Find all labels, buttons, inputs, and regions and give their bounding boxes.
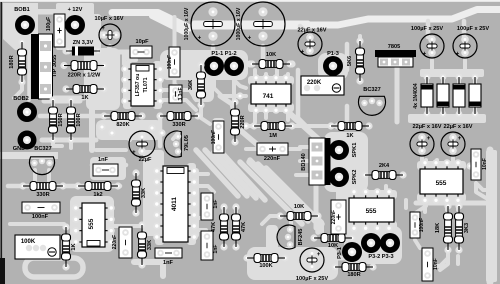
resistor 36K: [197, 61, 204, 68]
svg-text:+: +: [423, 51, 427, 57]
capacitor C 1000uF x16V no.2: [241, 2, 285, 46]
capacitor 220nF mid vertical: [331, 200, 346, 234]
svg-text:180R: 180R: [9, 55, 15, 68]
ground pad GND: [18, 131, 37, 150]
wire band under 10uF: [96, 32, 110, 37]
wire 100uF bottom links: [294, 252, 300, 266]
svg-text:+: +: [301, 49, 305, 55]
wire 220nF-SPK row: [288, 147, 300, 151]
resistor 5K6: [356, 37, 363, 44]
copper pour bottom-centre: [247, 247, 338, 280]
wire 79L05 links: [92, 163, 126, 168]
svg-text:+: +: [427, 136, 431, 142]
copper pour top-left around BOB1: [3, 3, 38, 50]
trimmer P 220K: [304, 85, 311, 92]
resistor 1K bottom-left: [62, 223, 69, 230]
resistor 10K top-right: [248, 60, 255, 67]
svg-text:3,3nF: 3,3nF: [178, 87, 184, 100]
junction pads misc: [242, 122, 249, 129]
svg-text:100K: 100K: [21, 239, 36, 245]
capacitor 1nF left: [93, 164, 118, 176]
wire 7805 down through BC327: [395, 67, 400, 122]
svg-text:220nF: 220nF: [112, 235, 118, 249]
solder pad P1-3: [323, 56, 343, 76]
op-amp IC1 LF357/TL071 DIP-8: [123, 61, 132, 109]
wire diode leads columns: [425, 72, 429, 84]
svg-text:330R: 330R: [36, 192, 49, 198]
wire 10uF bottom stub: [106, 46, 110, 54]
solder pad P3-3: [380, 233, 400, 253]
svg-text:P1-1 P1-2: P1-1 P1-2: [211, 51, 236, 57]
svg-text:GND: GND: [13, 146, 25, 152]
resistor 150R: [49, 96, 56, 103]
wire right edge vertical channel: [486, 150, 497, 282]
svg-text:22µF x 16V: 22µF x 16V: [297, 28, 326, 34]
resistor 100R: [67, 96, 74, 103]
svg-text:+: +: [248, 36, 252, 42]
svg-text:220K: 220K: [307, 80, 322, 86]
svg-text:2K4: 2K4: [379, 163, 390, 169]
svg-text:10nF: 10nF: [482, 158, 488, 170]
svg-text:SPK2: SPK2: [352, 170, 358, 185]
wire 36K down: [201, 108, 210, 124]
svg-text:22µF x 16V: 22µF x 16V: [412, 124, 441, 130]
wire bottom-left resistor row: [8, 184, 120, 189]
wire P1-3 to 220K: [326, 78, 333, 92]
wire band x105-145 y227: [106, 224, 140, 228]
resistor 1K upper-left: [62, 85, 69, 92]
capacitor C 22uF left: [129, 131, 155, 157]
junction pads in band under 820K: [98, 123, 105, 130]
wire 220R-mid top diagonal: [220, 96, 234, 112]
resistor 100K bottom: [243, 254, 250, 261]
svg-text:+: +: [317, 252, 321, 258]
svg-text:1000µF x 16V: 1000µF x 16V: [184, 7, 190, 40]
wire 7805 to diodes: [420, 69, 484, 77]
transistor BD140: [309, 138, 325, 185]
copper pour behind SPK1 SPK2: [324, 132, 368, 192]
resistor 220R x 1/2W: [60, 62, 67, 69]
svg-text:100µF x 25V: 100µF x 25V: [457, 26, 489, 32]
wire misc top right caps: [430, 60, 434, 70]
resistor 1k2: [74, 182, 81, 189]
resistor 33K upper: [132, 169, 139, 176]
timer IC4 555 left DIP-8 vertical: [74, 200, 83, 250]
svg-text:220nF: 220nF: [264, 156, 281, 162]
wire 100nF top stubs: [173, 17, 177, 52]
wire 555-2 surroundings: [352, 190, 356, 196]
wire 18K 3K3 bottoms: [440, 256, 448, 270]
capacitor C 22uF x16V top: [298, 32, 322, 56]
svg-text:ZN 3,3V: ZN 3,3V: [73, 40, 94, 46]
svg-text:741: 741: [263, 93, 274, 100]
svg-text:LF357 ou: LF357 ou: [135, 74, 141, 97]
capacitor 10pF: [130, 46, 152, 58]
wire left resistor column links: [14, 78, 22, 98]
wire 555-3 bottom band: [416, 201, 487, 206]
solder pad SPK1: [329, 140, 349, 160]
svg-text:4x 1N4004: 4x 1N4004: [413, 83, 419, 108]
wire 100nF-mid column: [212, 118, 225, 156]
wire 555 left pour: [70, 196, 114, 252]
capacitor 100nF mid: [213, 121, 224, 153]
wire TIP3055 side strip: [27, 38, 31, 100]
capacitor 100uF radial-rect top-left: [54, 14, 65, 47]
wire 10K bottom row links: [262, 216, 282, 224]
wire 4011 pin stubs right: [196, 172, 208, 176]
svg-text:220R: 220R: [240, 115, 246, 128]
solder pad P3-1: [342, 242, 362, 262]
svg-text:555: 555: [436, 180, 447, 187]
svg-text:BOB1: BOB1: [14, 7, 30, 13]
svg-text:100nF: 100nF: [211, 130, 217, 144]
svg-text:10nF: 10nF: [433, 258, 439, 270]
resistor 820K: [100, 112, 107, 119]
svg-text:100µF x 25V: 100µF x 25V: [296, 276, 328, 282]
wire band above 100K trimmer: [10, 222, 64, 226]
zener diode ZN 3,3V: [65, 48, 72, 55]
wire bottom centre band: [134, 262, 163, 276]
copper pour behind P1-3: [318, 53, 348, 80]
wire 1M-1K row: [246, 124, 336, 128]
svg-text:100nF: 100nF: [32, 214, 49, 220]
svg-text:330R: 330R: [172, 122, 185, 128]
svg-text:+: +: [456, 51, 460, 57]
svg-text:22µF x 16V: 22µF x 16V: [443, 124, 472, 130]
wire 100nF right to 555-2: [404, 200, 408, 208]
svg-text:P1-3: P1-3: [327, 51, 339, 57]
svg-text:100µF: 100µF: [46, 17, 52, 31]
wire 10pF under: [128, 52, 136, 60]
wire centre extra diagonals: [240, 162, 302, 224]
copper pour left-centre resistor ends: [86, 48, 120, 110]
svg-text:22µF: 22µF: [139, 157, 152, 163]
wire loop bottom-left: [25, 258, 83, 277]
capacitor C 22uF x16V mid no.1: [410, 132, 434, 156]
wire left of BF245: [266, 225, 278, 265]
svg-text:1nF: 1nF: [98, 157, 109, 163]
capacitor C 10uF x16V: [99, 24, 121, 46]
capacitor C 1000uF x16V no.1: [191, 2, 235, 46]
svg-text:1K: 1K: [71, 243, 77, 250]
op-amp IC2 741 DIP-8: [248, 76, 294, 85]
copper pour P3 connector area: [344, 226, 402, 264]
svg-text:79L05: 79L05: [184, 135, 190, 151]
svg-text:TL071: TL071: [143, 77, 149, 92]
wire 741 bottoms to 1M 1K row: [253, 108, 257, 122]
resistor 3K3: [455, 202, 462, 209]
wire 47K tops: [222, 208, 226, 214]
svg-text:5K6: 5K6: [347, 56, 353, 66]
resistor 10K mid-bottom lower: [310, 234, 317, 241]
svg-text:BC327: BC327: [363, 87, 380, 93]
timer IC5 555 centre DIP-8: [346, 190, 397, 199]
wire 100uF25V top stubs: [426, 21, 431, 37]
svg-text:1nF: 1nF: [213, 245, 219, 254]
capacitor 3,3nF: [169, 85, 182, 103]
wire 180R to P3: [370, 258, 374, 262]
copper vertical channel left-centre: [84, 14, 101, 100]
svg-text:BD140: BD140: [301, 153, 307, 170]
capacitor 220nF near SPK: [257, 143, 288, 155]
svg-text:10K: 10K: [294, 204, 304, 210]
svg-text:3K3: 3K3: [464, 223, 470, 233]
wire 741 right diagonal to SPK pour: [288, 112, 328, 148]
transistor BF245: [277, 225, 295, 249]
svg-text:10K: 10K: [328, 243, 338, 249]
resistor 1M: [250, 122, 257, 129]
resistor 180R bottom: [331, 263, 338, 270]
board left edge line: [1, 2, 3, 284]
svg-text:+: +: [132, 150, 136, 156]
wire left channel extension down: [89, 100, 95, 150]
wire P1-1 to 36K: [202, 78, 214, 96]
wire BF245 stubs: [289, 214, 293, 226]
capacitor 100nF right vertical: [410, 212, 420, 238]
svg-text:555: 555: [88, 218, 95, 229]
transistor BC327 left: [30, 157, 55, 175]
wire 10nF right edge link: [476, 184, 486, 198]
timer IC6 555 right DIP-8: [417, 161, 466, 170]
resistor 2K4: [361, 171, 368, 178]
svg-text:47K: 47K: [241, 222, 247, 232]
capacitor 1nF bottom: [155, 248, 182, 258]
capacitor C 100uF x25V bottom: [300, 248, 324, 272]
transistor BC327 right: [358, 96, 385, 115]
resistor 10K mid-bottom upper: [276, 212, 283, 219]
svg-text:33K: 33K: [141, 188, 147, 198]
solder pad SPK2: [329, 167, 349, 187]
resistor 180R left edge: [18, 38, 25, 45]
wire under diodes: [408, 114, 486, 123]
svg-text:100nF: 100nF: [419, 218, 425, 232]
svg-text:1nF: 1nF: [163, 260, 174, 266]
resistor 47K right: [232, 203, 239, 210]
solder pad +12V: [65, 15, 85, 35]
solder pad BOB1: [15, 15, 35, 35]
svg-text:P3-2 P3-3: P3-2 P3-3: [368, 254, 393, 260]
svg-text:BC327: BC327: [34, 146, 51, 152]
wire mid horizontal y147 left: [96, 148, 126, 152]
solder pad P1-2: [224, 56, 244, 76]
wire BD140 left stubs: [300, 145, 308, 149]
svg-text:36K: 36K: [188, 80, 194, 90]
svg-text:1M: 1M: [269, 133, 277, 139]
svg-text:TIP 3055: TIP 3055: [52, 55, 58, 78]
wire right of 4011: [190, 168, 199, 238]
svg-text:1K: 1K: [81, 95, 88, 101]
wire BC327 right second channel: [345, 106, 350, 120]
svg-text:+: +: [458, 136, 462, 142]
capacitor 100nF top: [169, 47, 180, 77]
wire 555-3 surroundings: [424, 160, 428, 166]
svg-text:100R: 100R: [76, 113, 82, 126]
svg-text:180R: 180R: [347, 272, 360, 278]
svg-text:100nF: 100nF: [167, 55, 173, 69]
solder pad P1-1: [204, 56, 224, 76]
wire band to top-right corner: [305, 10, 500, 26]
wire BC327 left stubs: [33, 170, 37, 181]
solder pad P3-2: [361, 233, 381, 253]
capacitor 220nF left vertical: [119, 227, 132, 258]
svg-text:33K: 33K: [147, 240, 153, 250]
capacitor 1nF vertical no.1: [201, 193, 213, 220]
wire P1-2 down to 220R: [232, 77, 236, 100]
svg-text:BOB2: BOB2: [13, 96, 29, 102]
wire 220nF-mid to SPK pour: [336, 192, 340, 200]
wire 22uF-top to band: [300, 26, 306, 32]
capacitor 1nF vertical no.2: [201, 231, 213, 260]
resistor 47K left: [220, 203, 227, 210]
resistor 1K right: [327, 122, 334, 129]
copper pour around 1nF C: [90, 157, 126, 180]
wire white top border line: [0, 0, 500, 2]
svg-text:820K: 820K: [116, 122, 129, 128]
svg-text:1K: 1K: [346, 133, 353, 139]
regulator 79L05: [164, 131, 181, 157]
svg-text:BF245: BF245: [298, 229, 304, 246]
svg-text:220R x 1/2W: 220R x 1/2W: [68, 73, 101, 79]
wire LF357 to 741 links: [162, 68, 196, 72]
resistor 220R mid: [231, 98, 238, 105]
svg-text:+: +: [101, 26, 105, 32]
svg-text:1k2: 1k2: [93, 192, 102, 198]
svg-text:4011: 4011: [171, 197, 178, 211]
wire diagonals centre board: [196, 150, 238, 196]
svg-text:150R: 150R: [58, 113, 64, 126]
svg-text:10µF x 16V: 10µF x 16V: [94, 16, 123, 22]
capacitor C 100uF x25V no.2: [453, 34, 477, 58]
wire 5K6 up: [358, 36, 362, 44]
resistor 18K: [444, 202, 451, 209]
svg-text:100K: 100K: [259, 263, 272, 269]
capacitor C 22uF x16V mid no.2: [441, 132, 465, 156]
transistor TIP3055 with heatsink bar: [31, 34, 39, 99]
svg-text:555: 555: [366, 208, 377, 215]
wire diagonal band to 1000uF: [112, 13, 190, 29]
resistor 330R upper: [156, 112, 163, 119]
capacitor C 100uF x25V no.1: [420, 34, 444, 58]
wire right edge joins: [476, 183, 490, 190]
wire BOB2 area links: [44, 99, 80, 104]
solder pad BOB2: [17, 102, 37, 122]
resistor 330R lower-left: [19, 182, 26, 189]
resistor 33K lower: [138, 221, 145, 228]
wire band left y155: [0, 152, 58, 159]
svg-text:SPK1: SPK1: [352, 143, 358, 158]
wire 18K 3K3 to bottom right: [415, 240, 420, 248]
wire stubs 820K 330R to caps below: [123, 132, 130, 140]
svg-text:7805: 7805: [388, 44, 400, 50]
wire SPK pour to P3 pour: [336, 186, 360, 230]
wire 10uF surroundings: [100, 50, 130, 55]
svg-text:1nF: 1nF: [213, 200, 219, 209]
wire 100uF-bottom to P3 pour: [326, 256, 346, 261]
board bottom-left black corner: [0, 258, 5, 284]
capacitor 100nF bottom-left: [22, 202, 60, 213]
svg-text:220nF: 220nF: [331, 210, 337, 224]
svg-text:10K: 10K: [266, 52, 276, 58]
svg-text:100µF x 25V: 100µF x 25V: [411, 26, 443, 32]
wire 1000uF bottom stubs: [211, 46, 216, 56]
junction pads under 22uF mid pair: [430, 162, 437, 169]
IC3 4011 DIP-14: [155, 163, 164, 245]
wire BOB2 to 820K row: [40, 114, 108, 119]
wire 150R 100R bottoms: [53, 140, 62, 146]
wire top edge band: [36, 9, 58, 15]
capacitor 10nF right edge: [471, 149, 481, 180]
wire horizontal band through 1000uF caps: [192, 21, 310, 30]
copper pour behind P1-1 P1-2: [160, 50, 248, 80]
copper pour around +12V: [56, 3, 94, 50]
svg-text:+ 12V: + 12V: [68, 7, 83, 13]
svg-text:18K: 18K: [435, 223, 441, 233]
svg-text:1000µF x 16V: 1000µF x 16V: [236, 7, 242, 40]
svg-text:+: +: [198, 36, 202, 42]
svg-text:10pF: 10pF: [135, 39, 149, 45]
wire 2K4 to BD140: [356, 173, 366, 177]
capacitor 10nF bottom-right: [422, 248, 433, 281]
wire 741 top stubs: [253, 70, 257, 82]
wire band under 820K/330R: [96, 120, 162, 140]
trimmer P 100K: [15, 235, 60, 259]
copper channel left of 4011: [143, 150, 164, 236]
wire 22uF pair to 555 area: [420, 158, 424, 168]
